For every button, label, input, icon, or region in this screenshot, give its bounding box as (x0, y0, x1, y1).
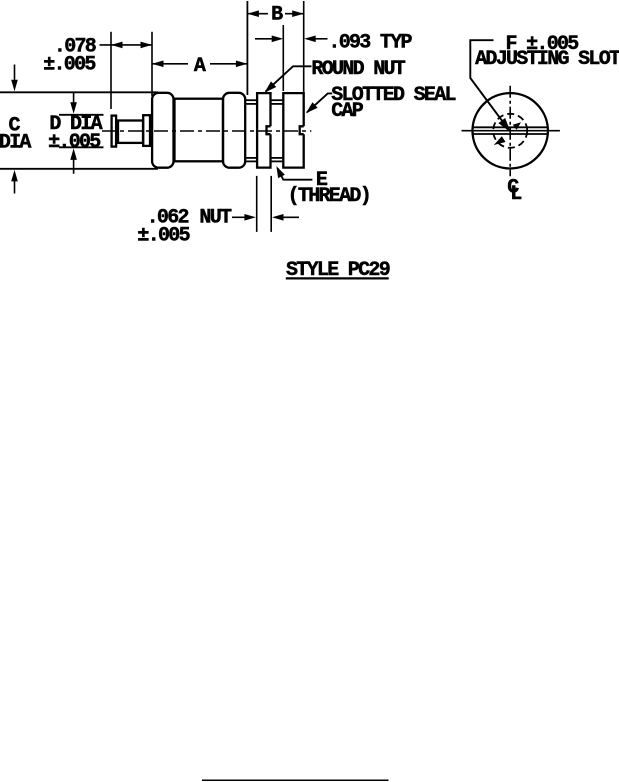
wire: .093 extension line (cap left edge ext) (282, 25, 284, 91)
node rotation arrow NE (513, 122, 521, 130)
svg-text:ROUND NUT: ROUND NUT (311, 58, 405, 81)
node C-DIA up arrow (14, 178, 16, 194)
wire: D DIA top extension line (59, 114, 104, 116)
node rotation arrow SW (494, 136, 506, 145)
wire: E leader (278, 168, 313, 179)
svg-text:ADJUSTING SLOT: ADJUSTING SLOT (475, 48, 619, 71)
node A dimension (152, 63, 188, 65)
svg-text:DIA: DIA (0, 131, 31, 154)
part: pin flange 1 (112, 116, 117, 147)
svg-text:B: B (271, 4, 283, 27)
node .078 dimension (100, 44, 153, 46)
wire: round-nut leader (266, 66, 312, 91)
wire: bottom rule (202, 779, 389, 781)
wire: seal-cap leader (307, 93, 332, 112)
svg-text:NUT: NUT (199, 207, 232, 230)
wire: D DIA bottom extension line (59, 146, 104, 148)
wire: F leader (470, 40, 505, 125)
part: thread 1 lines (245, 99, 257, 101)
svg-text:±.005: ±.005 (48, 131, 100, 154)
svg-text:CAP: CAP (331, 100, 364, 123)
part: thread 2 lines (271, 99, 284, 101)
wire: .078 left extension line (110, 32, 112, 109)
wire: side-view centerline (102, 130, 311, 132)
part: slotted seal cap (283, 93, 303, 168)
svg-text:±.005: ±.005 (137, 224, 189, 247)
node D-DIA down arrow (73, 92, 75, 105)
node C-DIA down arrow (14, 65, 16, 84)
wire: C DIA top extension line (0, 91, 158, 93)
part: end view outer circle (473, 93, 548, 168)
node .093 dimension arrows (255, 38, 273, 40)
node centerline symbol (507, 176, 521, 206)
wire: .062 left extension line (256, 176, 258, 232)
part: body lobe 1 (152, 93, 173, 168)
wire: .062 right extension line (270, 176, 272, 232)
part: adjusting slot edges (473, 126, 548, 128)
svg-text:A: A (194, 55, 206, 78)
svg-text:.093 TYP: .093 TYP (328, 32, 412, 55)
wire: B left extension line (246, 1, 248, 95)
svg-text:L: L (510, 183, 521, 206)
part: body lobe 2 (223, 93, 245, 168)
svg-text:±.005: ±.005 (43, 53, 95, 76)
wire: .078 right extension line (body left edge ext) (151, 32, 153, 96)
part: body middle cylinder (175, 99, 224, 162)
part: pin flange 2 (143, 115, 150, 146)
part: round nut slot notch (267, 126, 271, 134)
node B dimension (247, 13, 268, 15)
wire: end view vertical centerline (509, 86, 511, 177)
part: round nut (257, 93, 270, 168)
wire: cap right edge extension up (303, 1, 305, 94)
node .062 dimension arrows (232, 216, 246, 218)
part: pin body (118, 121, 143, 143)
svg-text:(THREAD): (THREAD) (288, 185, 370, 208)
wire: C DIA bottom extension line (0, 168, 158, 170)
wire: end view horizontal centerline (462, 130, 560, 132)
node D-DIA up arrow (73, 157, 75, 174)
part: rotation arc (dashed inner circle) (493, 114, 527, 148)
part: cap slot notch (300, 126, 304, 134)
